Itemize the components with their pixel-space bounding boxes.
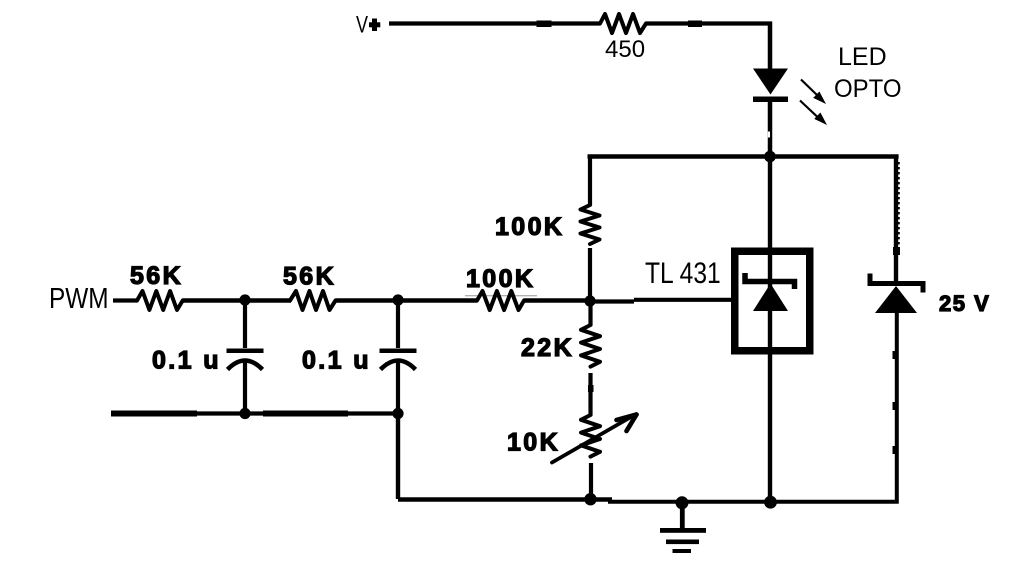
resistor 56K (first): [137, 291, 183, 310]
wire between 22K and 10K: [588, 373, 592, 415]
wire between 56K second and 100K: [336, 298, 478, 302]
wire overlap notch on LED cathode lead: [768, 132, 770, 138]
wire 100K divider top lead: [588, 155, 592, 206]
wire overlap dash on top rail: [537, 21, 552, 28]
resistor 22K: [581, 325, 600, 367]
wire overlap tick: [588, 385, 594, 392]
potentiometer 10K (variable resistor): [552, 415, 637, 463]
wire ground rail: [398, 497, 612, 502]
LED light emission arrows: [800, 80, 827, 126]
wire bottom-left return rail (thick segment 2): [263, 411, 348, 417]
junction node TL431 anode to ground rail: [764, 496, 777, 509]
wire between 56K first and second: [183, 298, 292, 302]
svg-text:450: 450: [605, 36, 645, 63]
wire bottom-left return rail (thick segment): [111, 411, 197, 417]
capacitor 0.1u (first) plates: [227, 349, 264, 370]
junction node first RC stage: [239, 294, 250, 305]
wire 10K bottom lead: [589, 463, 593, 499]
capacitor 0.1u (first) bottom lead: [243, 362, 247, 414]
svg-text:OPTO: OPTO: [834, 76, 902, 104]
wire LED cathode lead: [768, 100, 773, 157]
junction node LED cathode / opto rail: [764, 151, 776, 163]
svg-text:PWM: PWM: [49, 282, 109, 314]
capacitor 0.1u (second) plates: [380, 349, 417, 370]
svg-text:25 V: 25 V: [939, 291, 990, 316]
svg-text:56K: 56K: [130, 262, 183, 290]
wire top rail right of resistor 450: [646, 21, 772, 25]
wire 100K divider bottom lead: [588, 248, 592, 302]
LED opto-coupler diode: [753, 69, 788, 103]
capacitor 0.1u (first) top lead: [243, 300, 247, 348]
junction node 10K to ground rail: [584, 493, 596, 505]
wire feedback node to TL431 reference: [590, 299, 634, 303]
junction node feedback divider: [584, 295, 595, 306]
wire reference segment to TL431 box: [634, 298, 732, 302]
junction node cap1 return: [239, 408, 250, 419]
svg-text:LED: LED: [838, 43, 887, 71]
net label V+: [356, 12, 380, 38]
svg-text:100K: 100K: [495, 213, 564, 241]
capacitor 0.1u (second) top lead: [396, 300, 400, 348]
zener diode 25V: [870, 274, 923, 314]
wire 100K to feedback node: [524, 298, 592, 303]
svg-text:V: V: [356, 12, 369, 38]
svg-text:0.1 u: 0.1 u: [152, 347, 221, 375]
svg-text:0.1 u: 0.1 u: [302, 347, 371, 375]
wire TL431 cathode-anode vertical: [768, 157, 772, 503]
svg-text:100K: 100K: [466, 265, 535, 293]
svg-text:10K: 10K: [507, 429, 560, 457]
wire bottom-left return rail: [197, 411, 263, 415]
resistor 100K (divider top): [581, 205, 600, 244]
wire overlap tick 1 on zener lead: [893, 351, 899, 359]
svg-text:56K: 56K: [283, 263, 336, 291]
wire zener anode lead: [895, 313, 899, 504]
wire overlap blob on right drop: [893, 247, 900, 255]
wire opto branch drop (right): [894, 155, 898, 285]
wire top rail left of resistor 450: [389, 21, 600, 25]
wire 22K top lead: [588, 301, 592, 325]
TL431 shunt regulator box U1: [735, 251, 810, 351]
svg-text:22K: 22K: [521, 334, 574, 362]
TL431 internal zener symbol: [745, 273, 795, 311]
dotted wire artifact alongside right drop: [898, 162, 900, 250]
svg-text:TL 431: TL 431: [645, 257, 721, 289]
junction node second RC stage: [392, 294, 403, 305]
wire PWM input lead: [113, 298, 137, 302]
wire bottom-left return rail end: [348, 411, 400, 415]
ground symbol: [660, 502, 706, 553]
capacitor 0.1u (second) bottom lead: [396, 362, 400, 414]
resistor 56K (second): [290, 291, 336, 310]
wire overlap tick 3 on zener lead: [893, 446, 899, 454]
wire upper rail (LED node to divider and opto branch): [588, 154, 899, 159]
resistor 450: [600, 14, 646, 33]
wire overlap dash on top rail right: [688, 21, 702, 28]
resistor 100K (input): [477, 291, 524, 310]
junction node ground tap: [676, 496, 689, 509]
junction node cap2 return: [392, 408, 403, 419]
wire return rail drop to ground rail: [396, 414, 400, 500]
wire artifact faint lead line under 100K: [465, 295, 537, 297]
wire LED anode lead: [768, 22, 773, 71]
wire overlap tick 2 on zener lead: [893, 402, 899, 410]
